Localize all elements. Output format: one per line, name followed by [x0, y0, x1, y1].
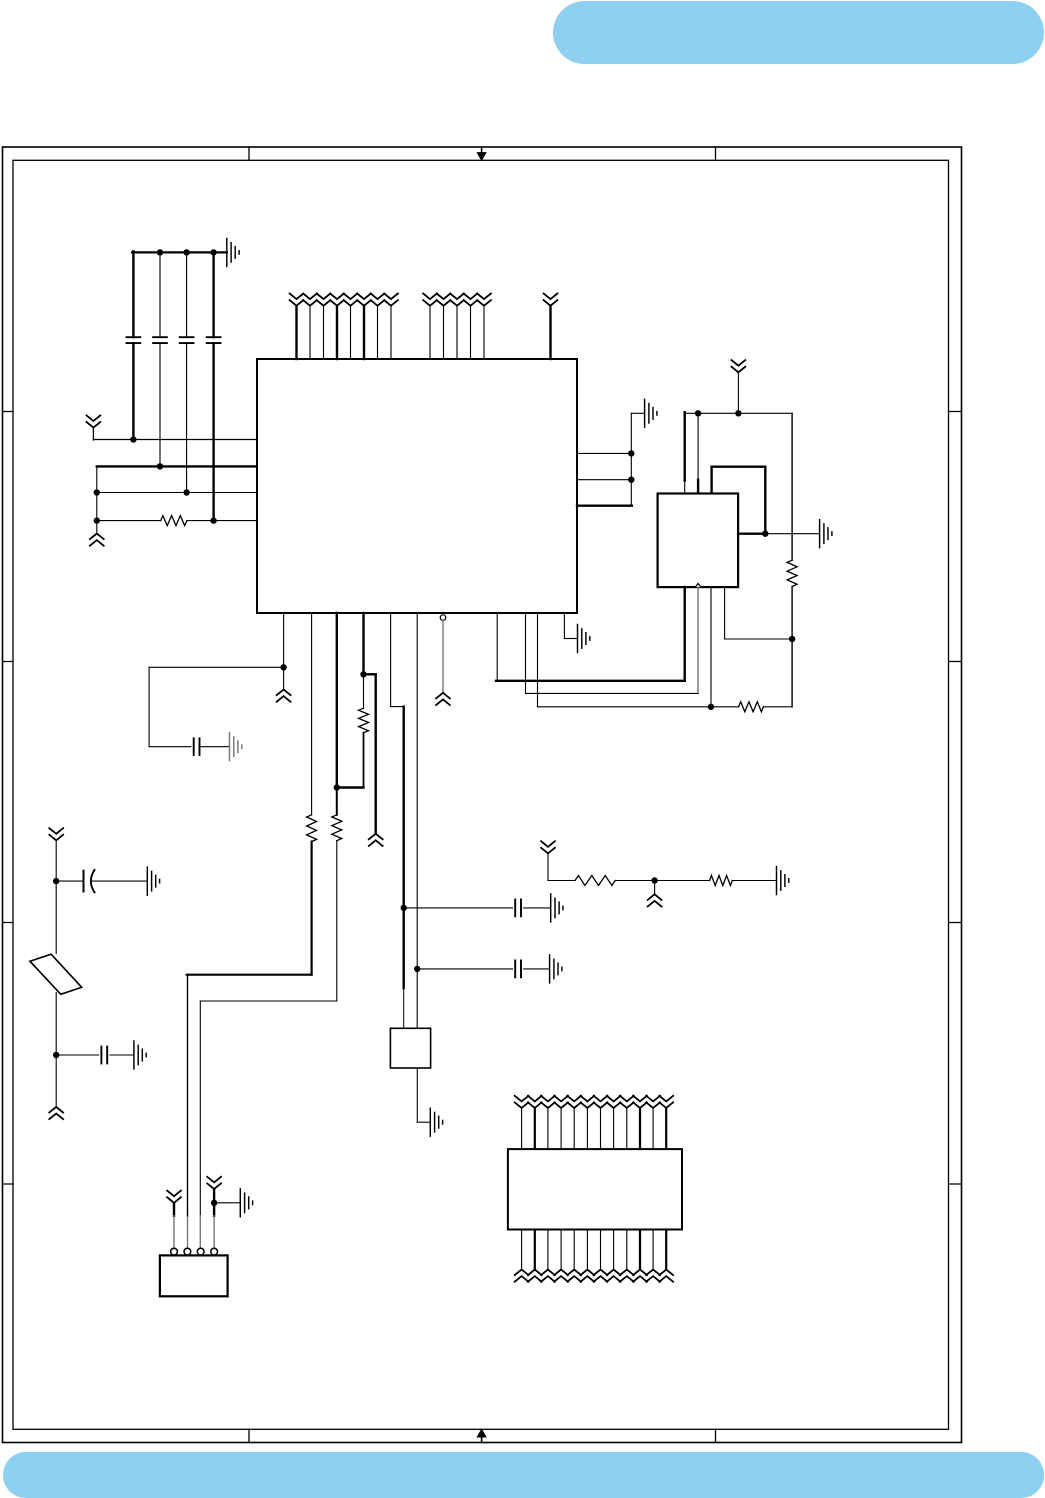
wire [443, 306, 445, 359]
wire (gray) [187, 1216, 189, 1249]
junction [628, 477, 634, 483]
off-page connector [620, 1096, 634, 1108]
wire [96, 521, 98, 534]
wire [56, 880, 82, 882]
wire [737, 372, 739, 413]
wire [526, 692, 699, 694]
wire [132, 251, 134, 337]
wire [613, 1230, 615, 1270]
wire [573, 1108, 575, 1149]
wire [417, 968, 512, 970]
off-page connector [423, 294, 437, 306]
resistor R2 [787, 560, 797, 586]
wire [200, 746, 230, 748]
resistor R8 [710, 876, 733, 886]
wire [295, 306, 297, 359]
resistor R3 [739, 702, 764, 712]
off-page connector [541, 841, 555, 853]
off-page connector [528, 1270, 542, 1282]
off-page connector [90, 534, 104, 546]
junction [708, 704, 714, 710]
capacitor C4 [207, 337, 221, 343]
wire [416, 1068, 418, 1122]
wire [725, 638, 793, 640]
wire [724, 587, 726, 639]
wire [212, 343, 214, 520]
off-page connector [277, 690, 291, 702]
wire [573, 1230, 575, 1270]
junction [762, 531, 768, 537]
ground [134, 1041, 146, 1069]
wire [311, 613, 313, 815]
resistor R4 [307, 815, 317, 842]
wire [214, 1202, 240, 1204]
off-page connector [732, 360, 746, 372]
ground [147, 867, 159, 895]
ground [645, 399, 657, 427]
wire [547, 1230, 549, 1270]
resistor R6 [359, 708, 369, 733]
off-page connector [554, 1270, 568, 1282]
junction [183, 489, 189, 495]
wire [560, 1108, 562, 1149]
wire [213, 1189, 215, 1216]
junction [157, 249, 163, 255]
wire [403, 988, 405, 1028]
wire [336, 613, 338, 788]
wire (gray) [173, 1216, 175, 1249]
wire [764, 706, 793, 708]
wire [97, 465, 257, 467]
wire [684, 481, 686, 494]
wire [55, 1055, 57, 1107]
wire [403, 707, 405, 988]
off-page connector [528, 1096, 542, 1108]
junction [130, 436, 136, 442]
wire [791, 413, 793, 560]
node rail [685, 412, 792, 414]
wire [525, 613, 527, 693]
wire [110, 1054, 134, 1056]
off-page connector [436, 693, 450, 705]
wire [537, 613, 539, 707]
wire [377, 306, 379, 359]
off-page connector [594, 1096, 608, 1108]
wire [626, 1230, 628, 1270]
junction [53, 878, 59, 884]
capacitor C6 [515, 900, 521, 917]
off-page connector [659, 1270, 673, 1282]
junction [735, 410, 741, 416]
blue footer banner [3, 1452, 1044, 1498]
capacitor C9 [101, 1047, 107, 1064]
frame zone ticks [3, 147, 962, 1443]
off-page connector [581, 1096, 595, 1108]
off-page connector [344, 294, 358, 306]
wire [534, 1230, 536, 1270]
wire [765, 533, 819, 535]
off-page connector [541, 1270, 555, 1282]
wire [187, 1215, 189, 1217]
wire [375, 674, 377, 833]
wire [524, 968, 550, 970]
blue header banner [553, 1, 1044, 64]
wire [362, 613, 364, 674]
off-page connector [646, 1096, 660, 1108]
off-page connector [371, 294, 385, 306]
wire [173, 1203, 175, 1216]
wire [521, 1108, 523, 1149]
wire [652, 1230, 654, 1270]
off-page connector [554, 1096, 568, 1108]
capacitor C7 [515, 961, 521, 978]
wire [665, 1108, 667, 1149]
border frame inner [13, 160, 949, 1429]
wire [548, 880, 575, 882]
wire [639, 1230, 641, 1270]
wire [521, 1230, 523, 1270]
off-page connector [317, 294, 331, 306]
junction [53, 1052, 59, 1058]
junction [401, 905, 407, 911]
junction [628, 450, 634, 456]
off-page connector [567, 1096, 581, 1108]
junction [210, 249, 216, 255]
wire [586, 1108, 588, 1149]
wire [630, 413, 632, 505]
ground [240, 1189, 252, 1217]
ground [430, 1108, 442, 1136]
wire [132, 343, 134, 439]
wire [684, 412, 686, 480]
ground [820, 520, 832, 548]
ground [550, 955, 562, 983]
wire [456, 306, 458, 359]
capacitor C1 [127, 337, 141, 343]
wire [560, 1230, 562, 1270]
connector CN1 [160, 1255, 228, 1296]
wire [732, 880, 776, 882]
wire [697, 587, 699, 693]
wire [496, 613, 498, 681]
wire [665, 1230, 667, 1270]
wire [186, 252, 188, 337]
off-page connector [477, 294, 491, 306]
pin [197, 1248, 204, 1255]
off-page connector [464, 294, 478, 306]
junction [651, 877, 657, 883]
pin [211, 1248, 218, 1255]
wire [626, 1108, 628, 1149]
wire [55, 881, 57, 953]
wire [586, 1230, 588, 1270]
wire [93, 880, 148, 882]
wire (gray) [199, 1216, 201, 1249]
wire [538, 706, 712, 708]
capacitor C3 [180, 337, 194, 343]
wire [577, 505, 632, 507]
wire [547, 1108, 549, 1149]
wire [336, 841, 338, 1001]
junction [280, 664, 286, 670]
frame top center arrow [481, 147, 483, 154]
wire [159, 252, 161, 337]
off-page connector [659, 1096, 673, 1108]
wire [684, 587, 686, 681]
ground (gray) [230, 733, 242, 761]
wire [639, 1108, 641, 1149]
wire [654, 881, 656, 895]
wire [711, 706, 739, 708]
off-page connector [633, 1270, 647, 1282]
wire [710, 587, 712, 707]
wire [429, 306, 431, 359]
off-page connector [437, 294, 451, 306]
junction [334, 784, 340, 790]
wire [200, 1000, 336, 1002]
pin [184, 1248, 191, 1255]
off-page connector [567, 1270, 581, 1282]
junction [360, 671, 366, 677]
wire [364, 673, 376, 675]
ground [551, 894, 563, 922]
off-page connector [330, 294, 344, 306]
off-page connector [594, 1270, 608, 1282]
junction [789, 636, 795, 642]
wire [55, 993, 57, 1056]
capacitor C2 [153, 337, 167, 343]
off-page connector [607, 1096, 621, 1108]
IC U2 [658, 494, 739, 588]
junction [94, 517, 100, 523]
junction [94, 489, 100, 495]
wire [600, 1108, 602, 1149]
ground (cap bank) [227, 238, 239, 266]
wire [212, 252, 214, 337]
resistor R7 [575, 876, 615, 886]
wire [92, 428, 94, 440]
ground [777, 867, 789, 895]
wire [336, 306, 338, 359]
off-page connector [450, 294, 464, 306]
wire [311, 842, 313, 975]
off-page connector [646, 1270, 660, 1282]
wire [549, 306, 551, 359]
off-page connector [49, 1107, 63, 1119]
off-page connector [384, 294, 398, 306]
off-page connector [49, 828, 63, 840]
open-drain pin [440, 615, 446, 621]
node VCC rail [132, 251, 227, 253]
wire [600, 1230, 602, 1270]
wire [309, 306, 311, 359]
wire [534, 1108, 536, 1149]
off-page connector [357, 294, 371, 306]
wire [738, 533, 765, 535]
off-page connector [541, 1096, 555, 1108]
off-page connector [167, 1191, 181, 1203]
wire [697, 480, 699, 494]
off-page connector [620, 1270, 634, 1282]
off-page connector [207, 1177, 221, 1189]
wire [149, 746, 191, 748]
wire [791, 587, 793, 707]
off-page connector [581, 1270, 595, 1282]
junction [157, 463, 163, 469]
wire [416, 613, 418, 1028]
resistor R1 [161, 516, 187, 526]
off-page connector [607, 1270, 621, 1282]
wire [363, 733, 365, 788]
wire [96, 466, 98, 520]
wire [390, 613, 392, 707]
wire [187, 974, 312, 976]
wire [187, 520, 257, 522]
wire [697, 413, 699, 479]
wire [547, 853, 549, 880]
wire [391, 706, 404, 708]
wire [159, 343, 161, 466]
junction [211, 1200, 217, 1206]
junction [414, 966, 420, 972]
ground [578, 625, 590, 653]
off-page connector [87, 415, 101, 427]
frame bottom center arrow [481, 1436, 483, 1443]
wire [186, 343, 188, 492]
wire [496, 680, 685, 682]
junction [210, 517, 216, 523]
wire [613, 1108, 615, 1149]
polarized capacitor C8 [83, 871, 85, 892]
wire [615, 880, 654, 882]
wire [652, 1108, 654, 1149]
border frame outer [3, 147, 962, 1443]
wire [283, 613, 285, 690]
off-page connector [290, 294, 304, 306]
wire [97, 492, 257, 494]
wire [404, 907, 513, 909]
off-page connector [515, 1096, 529, 1108]
wire [483, 306, 485, 359]
IC U3 [508, 1149, 682, 1229]
crystal X1 [390, 1028, 430, 1068]
off-page connector [515, 1270, 529, 1282]
wire [470, 306, 472, 359]
wire [363, 674, 365, 708]
wire [564, 638, 577, 640]
wire [55, 840, 57, 881]
wire [323, 306, 325, 359]
wire (gray) [213, 1216, 215, 1249]
wire [187, 975, 189, 1216]
wire [56, 1054, 98, 1056]
jumper J1 [30, 954, 82, 994]
wire [390, 306, 392, 359]
wire (gray) [442, 620, 444, 692]
wire [524, 907, 551, 909]
wire [350, 306, 352, 359]
clock marker [695, 584, 701, 588]
wire [93, 439, 257, 441]
wire [199, 1001, 201, 1216]
wire [631, 412, 644, 414]
junction [695, 410, 701, 416]
wire [712, 467, 766, 534]
wire [417, 1121, 430, 1123]
junction [183, 249, 189, 255]
wire [149, 666, 284, 668]
off-page connector [303, 294, 317, 306]
off-page connector [369, 834, 383, 846]
pin [171, 1248, 178, 1255]
wire [337, 786, 364, 788]
wire [563, 613, 565, 639]
wire [577, 452, 631, 454]
resistor R5 [332, 815, 342, 841]
off-page connector [544, 294, 558, 306]
wire [336, 788, 338, 815]
wire [363, 306, 365, 359]
wire [148, 667, 150, 746]
capacitor C5 [194, 738, 200, 755]
wire [97, 520, 161, 522]
wire [577, 479, 631, 481]
wire [655, 880, 710, 882]
off-page connector [633, 1096, 647, 1108]
IC U1 [257, 359, 577, 613]
off-page connector [648, 894, 662, 906]
